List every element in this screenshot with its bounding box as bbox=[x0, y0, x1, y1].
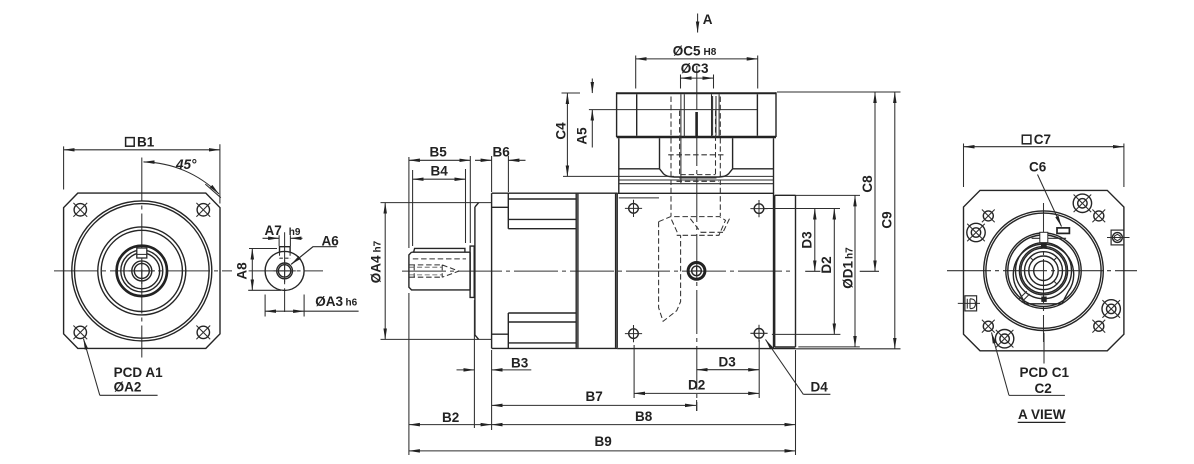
svg-text:h9: h9 bbox=[289, 227, 301, 238]
keyway hidden part bbox=[280, 252, 291, 258]
svg-text:C6: C6 bbox=[1029, 160, 1047, 175]
svg-text:ØC5: ØC5 bbox=[673, 43, 701, 58]
extension line top (C8 C9) bbox=[777, 91, 901, 93]
hidden coupling hub sides bbox=[677, 111, 719, 182]
hub circle inner bbox=[1021, 248, 1066, 293]
svg-text:C2: C2 bbox=[1035, 381, 1052, 396]
dimension B1 line bbox=[64, 149, 220, 151]
svg-text:D2: D2 bbox=[688, 378, 705, 393]
mounting flange band right edges bbox=[615, 194, 617, 348]
corner hole top-left bbox=[982, 210, 995, 223]
leader C6 bbox=[1038, 175, 1062, 227]
pilot circle inner bbox=[986, 213, 1101, 328]
extension line D1 bottom bbox=[798, 346, 860, 348]
shaft chamfer circle bbox=[124, 253, 160, 289]
flange outline square with chamfers bbox=[964, 190, 1124, 350]
dimension D1 vertical bbox=[854, 195, 856, 347]
label C4 bbox=[554, 122, 569, 140]
dimension B3 arrows (outside) bbox=[457, 369, 475, 371]
label square C7 bbox=[1022, 132, 1051, 147]
spoke upper-right bbox=[1054, 257, 1057, 260]
dimension B7 line bbox=[492, 404, 696, 406]
leader PCD C1 bbox=[1043, 333, 1045, 364]
center screw bbox=[688, 263, 705, 280]
dimension B5 line bbox=[409, 159, 470, 161]
svg-text:ØA2: ØA2 bbox=[114, 380, 142, 395]
dimension D3 bottom line bbox=[697, 369, 760, 371]
dimension A4 extension lines bbox=[381, 203, 492, 340]
front pilot boss bbox=[475, 203, 479, 340]
dimension B1 label bbox=[126, 134, 155, 149]
svg-text:B9: B9 bbox=[595, 434, 612, 449]
key section (solid top) bbox=[280, 247, 291, 253]
svg-text:B7: B7 bbox=[586, 389, 603, 404]
svg-text:B1: B1 bbox=[137, 134, 155, 149]
rear cover plate bbox=[775, 195, 796, 347]
screw head bottom-left bbox=[995, 330, 1013, 348]
dimension A7 arrows (outside) bbox=[263, 237, 280, 239]
pilot circle outer bbox=[72, 201, 212, 341]
hidden funnel notch in cavity bbox=[690, 219, 729, 233]
leader underline bbox=[100, 394, 158, 396]
dimension C7 extension lines bbox=[964, 144, 1124, 188]
bolt hole top-left bbox=[73, 203, 87, 217]
tapped center hole hidden bbox=[410, 265, 459, 277]
label C8 bbox=[860, 175, 875, 193]
svg-text:A: A bbox=[703, 12, 713, 27]
hidden internal cavity bbox=[659, 217, 726, 322]
bolt hole top-right bbox=[196, 203, 210, 217]
center cross ticks bbox=[129, 258, 155, 284]
centerline horizontal (A view) bbox=[947, 270, 1137, 272]
corner hole bottom-right bbox=[1092, 320, 1105, 333]
label D3 bbox=[800, 231, 815, 249]
boss circle inner bbox=[101, 230, 182, 311]
counterbore step line bbox=[617, 109, 758, 111]
svg-text:D2: D2 bbox=[819, 256, 834, 273]
svg-text:ØC3: ØC3 bbox=[681, 61, 709, 76]
svg-text:A8: A8 bbox=[235, 262, 250, 280]
keyway outline above bbox=[1040, 232, 1048, 242]
tapped hole inner circle bbox=[278, 265, 290, 277]
extension line hole row top bbox=[765, 208, 841, 210]
pilot circle inner bbox=[75, 204, 210, 339]
svg-text:A5: A5 bbox=[574, 127, 589, 145]
face hole top-right bbox=[750, 200, 767, 217]
svg-text:h6: h6 bbox=[346, 298, 358, 309]
corner hole top-right bbox=[1092, 210, 1105, 223]
shaft flange plate bbox=[470, 246, 474, 297]
label dia A4 h7 bbox=[369, 240, 384, 283]
corner hole bottom-left bbox=[982, 320, 995, 333]
face hole bottom-left bbox=[625, 325, 642, 342]
A VIEW underline bbox=[1018, 421, 1066, 423]
extension verticals bottom bbox=[409, 156, 796, 455]
svg-text:B8: B8 bbox=[635, 409, 653, 424]
dimension B4 line bbox=[413, 178, 466, 180]
dimension C8 vertical bbox=[874, 92, 876, 271]
right side tab bbox=[1107, 230, 1130, 245]
dimension C4 line bbox=[566, 93, 568, 176]
bearing retaining ring (thick) bbox=[117, 246, 167, 296]
dimension B1 extension lines bbox=[64, 144, 220, 203]
leader C2 bbox=[992, 333, 1010, 396]
leader PCD A1 bbox=[84, 339, 100, 396]
bell circle outer bbox=[1006, 233, 1081, 308]
boss circle outer bbox=[98, 227, 186, 315]
label A5 bbox=[574, 127, 589, 145]
leader A6 bbox=[291, 247, 337, 265]
dimension D2 bottom line bbox=[634, 392, 759, 394]
bell dome curve bbox=[660, 169, 733, 177]
dimension C4 extension lines bbox=[562, 93, 620, 176]
dimension A3 line bbox=[265, 310, 304, 312]
dimension B9 line bbox=[409, 450, 796, 452]
left side tab bbox=[958, 296, 980, 311]
dimension A3 extension lines bbox=[265, 295, 304, 317]
dimension A8 extension lines bbox=[248, 249, 281, 291]
view A arrow bbox=[697, 14, 699, 33]
coupling solid edges in plate bbox=[681, 94, 719, 183]
shaft section circle bbox=[265, 251, 304, 290]
pilot bore verticals bbox=[637, 94, 758, 136]
centerline input axis bbox=[696, 66, 698, 411]
mounting flange band left edges bbox=[575, 194, 577, 348]
centerline vertical (left view) bbox=[141, 158, 143, 358]
barrel lines bbox=[508, 199, 576, 343]
svg-text:A VIEW: A VIEW bbox=[1018, 407, 1066, 422]
front plate outline bbox=[492, 193, 509, 348]
centerline output axis bbox=[402, 270, 791, 272]
svg-text:ØA3: ØA3 bbox=[315, 294, 343, 309]
adapter plate outline bbox=[617, 92, 776, 137]
svg-text:C7: C7 bbox=[1034, 132, 1051, 147]
dimension C7 line bbox=[964, 146, 1124, 148]
keyway (left view) bbox=[137, 248, 147, 258]
main housing block bbox=[617, 193, 795, 348]
gearhead silhouette top/bottom bbox=[492, 193, 618, 348]
dimension C5 line bbox=[636, 58, 758, 60]
dimension A5 arrows bbox=[591, 79, 593, 94]
key on shaft bbox=[414, 248, 465, 252]
hub slit chords bbox=[1032, 237, 1067, 239]
bell housing sides bbox=[619, 138, 774, 193]
bell circle inner bbox=[1008, 235, 1079, 306]
bore circle outer bbox=[1025, 252, 1063, 290]
svg-text:D3: D3 bbox=[719, 355, 737, 370]
C6 key rectangle bbox=[1057, 228, 1069, 234]
bell neck verticals bbox=[660, 138, 733, 169]
svg-text:D4: D4 bbox=[811, 380, 829, 395]
center hole circle bbox=[132, 261, 152, 281]
spoke lower-right bbox=[1054, 281, 1057, 284]
hidden bore verticals into block bbox=[671, 97, 720, 217]
centerline horizontal (left view) bbox=[54, 270, 232, 272]
svg-text:C4: C4 bbox=[554, 122, 569, 140]
bell shoulder lines bbox=[619, 168, 774, 170]
dimension D3 vertical bbox=[814, 209, 816, 272]
svg-text:C8: C8 bbox=[860, 175, 875, 193]
45 degree reference line bbox=[205, 184, 221, 198]
clamp collar outer with bottom lug bbox=[1013, 244, 1073, 304]
flange outline square with chamfers bbox=[64, 193, 220, 348]
svg-text:B5: B5 bbox=[430, 144, 448, 159]
svg-text:PCD A1: PCD A1 bbox=[114, 365, 164, 380]
output shaft body bbox=[409, 252, 470, 290]
bore circle inner bbox=[1034, 261, 1054, 281]
dimension C3 line bbox=[681, 77, 714, 79]
bell base lines bbox=[619, 176, 774, 183]
keyway depth hidden line bbox=[413, 258, 466, 260]
screw head right-bottom bbox=[1102, 300, 1120, 318]
dimension B8 line bbox=[492, 424, 796, 426]
dimension B2 line bbox=[409, 424, 492, 426]
pilot circle outer bbox=[984, 211, 1104, 331]
tapped hole circle bbox=[277, 263, 293, 279]
svg-text:D3: D3 bbox=[800, 231, 815, 249]
hub circle outer bbox=[1019, 247, 1067, 295]
svg-text:B4: B4 bbox=[431, 163, 449, 178]
extension line D3 D2 center bbox=[805, 270, 879, 272]
dimension B6 arrows (outside) bbox=[475, 159, 492, 161]
extension line C9 bottom bbox=[796, 348, 901, 350]
extension line D1 top bbox=[796, 194, 861, 196]
svg-text:A7: A7 bbox=[265, 223, 282, 238]
keyway inner line bbox=[137, 253, 147, 255]
dome flat thick bbox=[679, 177, 716, 179]
centerline horizontal (section view) bbox=[249, 270, 323, 272]
keyway dark mark top bbox=[1041, 243, 1047, 249]
center hole inner circle bbox=[134, 263, 149, 278]
clamp slit lines bbox=[1019, 291, 1030, 302]
svg-text:H8: H8 bbox=[704, 47, 717, 58]
svg-text:A6: A6 bbox=[322, 233, 340, 248]
adapter plate bottom edge (thick) bbox=[617, 136, 776, 138]
svg-text:45°: 45° bbox=[175, 157, 197, 172]
center cross ticks (section view) bbox=[274, 260, 296, 282]
housing step line bbox=[619, 197, 659, 199]
hidden coupling horizontal bbox=[668, 155, 724, 175]
svg-text:PCD C1: PCD C1 bbox=[1020, 365, 1070, 380]
tapped hole minor dia hidden bbox=[410, 267, 443, 275]
label C9 bbox=[880, 211, 895, 228]
face hole bottom-right bbox=[750, 325, 767, 342]
svg-text:B2: B2 bbox=[442, 410, 459, 425]
dimension A5 extension line bbox=[589, 109, 617, 111]
adapter plate top edge (thick) bbox=[617, 92, 776, 94]
label D2 bbox=[819, 256, 834, 273]
dimension A8 line bbox=[251, 249, 253, 291]
svg-text:C9: C9 bbox=[880, 211, 895, 228]
face hole top-left bbox=[625, 200, 642, 217]
screw shank dark bbox=[695, 112, 698, 137]
label dia D1 h7 bbox=[841, 247, 856, 289]
dimension C3 extension lines bbox=[681, 75, 714, 89]
dimension A7 extension lines bbox=[279, 235, 290, 246]
collar inner circle bbox=[1016, 243, 1072, 299]
svg-text:B6: B6 bbox=[493, 144, 511, 159]
screw head left-top bbox=[967, 223, 985, 241]
bolt hole bottom-right bbox=[196, 326, 210, 340]
dimension D2 vertical bbox=[833, 209, 835, 335]
centerline vertical (A view) bbox=[1043, 203, 1045, 342]
shaft circle bbox=[121, 250, 163, 292]
45 degree arc dimension bbox=[144, 162, 219, 194]
dimension A4 line bbox=[384, 203, 386, 340]
extension line D2 bottom bbox=[772, 333, 841, 335]
svg-text:B3: B3 bbox=[511, 355, 529, 370]
dimension A3 tail bbox=[304, 310, 359, 312]
clamp slot dark mark bottom bbox=[1041, 297, 1046, 302]
bolt hole bottom-left bbox=[73, 326, 87, 340]
B7 end tick bbox=[696, 400, 698, 411]
screw head top-right bbox=[1073, 194, 1091, 212]
centerline vertical (section view) bbox=[284, 232, 286, 312]
spoke upper-left bbox=[1030, 257, 1033, 260]
dimension C5 extension lines bbox=[636, 56, 758, 89]
leader D4 bbox=[766, 340, 804, 395]
bore circle mid bbox=[1029, 256, 1058, 285]
dimension C9 vertical bbox=[894, 92, 896, 349]
